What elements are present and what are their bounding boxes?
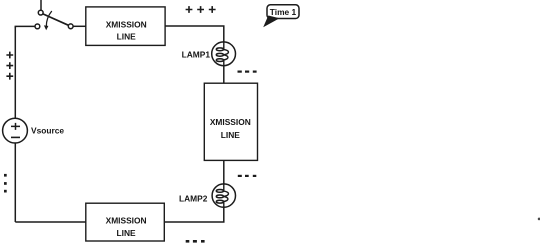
label XMISSION LINE (top box): [106, 20, 147, 42]
switch motion arrow: [44, 11, 52, 30]
svg-text:LINE: LINE: [221, 130, 240, 140]
wire: top box to corner above LAMP1: [165, 26, 224, 42]
svg-text:LINE: LINE: [117, 228, 136, 238]
svg-text:LINE: LINE: [117, 32, 136, 42]
lamp LAMP1: [212, 42, 236, 66]
switch top throw terminal: [38, 10, 43, 15]
svg-text:Time 1: Time 1: [270, 7, 297, 17]
transmission line box (bottom): [86, 203, 165, 241]
svg-text:XMISSION: XMISSION: [210, 117, 251, 127]
minus charges right of wire (upper): [238, 71, 257, 73]
Time 1 callout bubble: [263, 5, 299, 27]
wire stub from top edge to switch top throw: [40, 0, 42, 10]
wire: vertical box to LAMP2: [223, 160, 225, 184]
switch blade: [43, 14, 69, 25]
plus charges above top wire: [186, 6, 216, 13]
label XMISSION LINE (bottom box): [106, 216, 147, 238]
wire: bottom left rail to bottom transmission line: [15, 221, 86, 223]
switch left throw terminal: [35, 24, 40, 29]
transmission line box (vertical, right): [204, 83, 257, 160]
wire: LAMP1 to vertical transmission line: [223, 66, 225, 84]
Vsource minus sign: [11, 136, 20, 138]
label XMISSION LINE (vertical box): [210, 117, 251, 140]
charge dots below bottom wire: [186, 240, 205, 243]
wire: LAMP2 down to bottom rail corner: [164, 207, 224, 222]
wire: left rail down to Vsource: [14, 26, 16, 118]
lamp LAMP2: [212, 184, 235, 207]
wire: switch pivot to top transmission line: [73, 25, 86, 27]
svg-text:LAMP2: LAMP2: [179, 193, 208, 203]
svg-text:LAMP1: LAMP1: [182, 49, 211, 59]
switch pivot terminal: [68, 24, 73, 29]
wire: left throw to left rail corner: [15, 26, 35, 28]
minus charges right of wire (lower): [238, 175, 256, 177]
svg-text:Vsource: Vsource: [31, 126, 64, 136]
svg-text:XMISSION: XMISSION: [106, 20, 147, 30]
voltage source Vsource: [3, 118, 28, 143]
stray mark bottom right: [538, 218, 540, 221]
svg-text:XMISSION: XMISSION: [106, 216, 147, 226]
plus charges on left rail: [6, 52, 13, 80]
Vsource plus sign: [11, 123, 20, 130]
transmission line box (top): [86, 7, 165, 46]
charge dots beside lower left rail: [4, 174, 7, 193]
wire: Vsource down left rail: [14, 143, 16, 222]
